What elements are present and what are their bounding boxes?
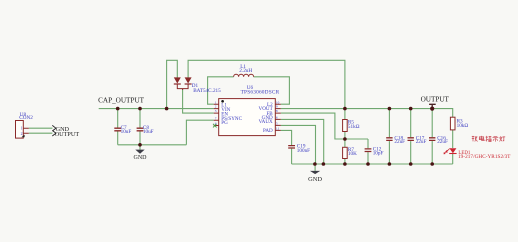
svg-text:8: 8 — [276, 109, 278, 113]
svg-text:6: 6 — [276, 116, 278, 120]
svg-text:22uF: 22uF — [394, 139, 405, 145]
svg-text:OUTPUT: OUTPUT — [421, 96, 450, 104]
svg-text:10uF: 10uF — [143, 129, 154, 135]
svg-text:10: 10 — [276, 100, 280, 104]
svg-text:CAP_OUTPUT: CAP_OUTPUT — [98, 97, 145, 105]
svg-text:9: 9 — [276, 105, 278, 109]
svg-text:10kΩ: 10kΩ — [457, 123, 469, 129]
svg-text:1: 1 — [21, 127, 23, 131]
svg-text:OUTPUT: OUTPUT — [55, 131, 80, 138]
svg-text:BAT54C.215: BAT54C.215 — [193, 88, 221, 94]
svg-text:10K: 10K — [348, 151, 357, 157]
svg-text:10uF: 10uF — [121, 129, 132, 135]
svg-text:PG: PG — [221, 120, 228, 126]
svg-text:2.2uH: 2.2uH — [239, 68, 252, 74]
svg-text:2: 2 — [21, 132, 23, 136]
svg-text:PAD: PAD — [263, 128, 273, 134]
svg-text:U6: U6 — [247, 85, 254, 91]
svg-text:1: 1 — [215, 100, 217, 104]
svg-text:19-217/GHC-YR1S2/3T: 19-217/GHC-YR1S2/3T — [458, 154, 511, 160]
svg-text:22uF: 22uF — [437, 139, 448, 145]
svg-text:51kΩ: 51kΩ — [348, 124, 360, 130]
svg-text:10pF: 10pF — [373, 150, 384, 156]
svg-text:6: 6 — [215, 122, 217, 126]
svg-text:GND: GND — [308, 176, 322, 183]
svg-text:22uF: 22uF — [416, 139, 427, 145]
svg-text:GND: GND — [134, 155, 148, 161]
svg-text:7: 7 — [215, 116, 217, 120]
svg-text:2: 2 — [215, 105, 217, 109]
svg-text:3: 3 — [215, 109, 217, 113]
svg-text:100nF: 100nF — [297, 148, 310, 154]
svg-text:VAUX: VAUX — [259, 119, 273, 125]
svg-text:5: 5 — [276, 122, 278, 126]
svg-text:11: 11 — [276, 127, 280, 131]
svg-text:CON2: CON2 — [19, 115, 33, 121]
